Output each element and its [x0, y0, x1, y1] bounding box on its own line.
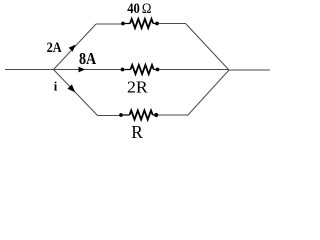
- wire: top branch left segment: [96, 23, 122, 25]
- resistor 2R (middle branch zigzag): [131, 65, 154, 74]
- wire: stub from resistor R: [153, 114, 155, 116]
- svg-text:Ω: Ω: [142, 1, 152, 17]
- junction dot: left terminal of resistor R: [119, 113, 123, 117]
- wire: stub to resistor 2R: [124, 69, 130, 71]
- wire: stub to resistor 40Ω: [125, 23, 130, 25]
- wire: right lead out of node B: [229, 69, 270, 71]
- junction dot: left terminal of resistor 40Ω: [121, 22, 125, 26]
- svg-text:2R: 2R: [127, 77, 148, 96]
- wire: stub from resistor 40Ω: [153, 23, 155, 25]
- wire: top branch right segment: [159, 23, 186, 25]
- current arrow 2A on upper diagonal: [69, 45, 76, 52]
- svg-text:40: 40: [127, 1, 140, 17]
- wire: middle branch left segment from node A: [54, 69, 123, 71]
- junction dot: right terminal of resistor R: [154, 113, 158, 117]
- junction dot: left terminal of resistor 2R: [121, 68, 125, 72]
- junction dot: right terminal of resistor 2R: [156, 68, 160, 72]
- wire: lower-right diagonal to node B: [188, 70, 230, 116]
- wire: left lead into node A: [5, 69, 54, 71]
- current arrow 8A on middle wire: [79, 67, 86, 73]
- wire: bottom branch left segment: [98, 115, 121, 117]
- junction dot: right terminal of resistor 40Ω: [155, 22, 159, 26]
- resistor 40Ω (top branch zigzag): [130, 19, 153, 28]
- node B (right junction): [228, 69, 230, 71]
- wire: bottom branch right segment: [158, 114, 187, 116]
- wire: middle branch right segment to node B: [159, 69, 229, 71]
- wire: stub from resistor 2R: [154, 69, 156, 71]
- svg-text:8A: 8A: [79, 49, 96, 68]
- svg-text:R: R: [131, 122, 143, 140]
- node A (left junction): [53, 69, 55, 71]
- svg-text:2A: 2A: [47, 40, 62, 56]
- wire: lower-left diagonal from node A to bottom branch: [54, 70, 98, 116]
- wire: upper-right diagonal to node B: [186, 24, 229, 70]
- resistor R (bottom branch zigzag): [130, 110, 153, 119]
- svg-text:i: i: [54, 80, 58, 94]
- current arrow i on lower diagonal: [67, 84, 75, 92]
- wire: stub to resistor R: [123, 114, 130, 116]
- wire: upper-left diagonal from node A to top branch: [54, 24, 97, 70]
